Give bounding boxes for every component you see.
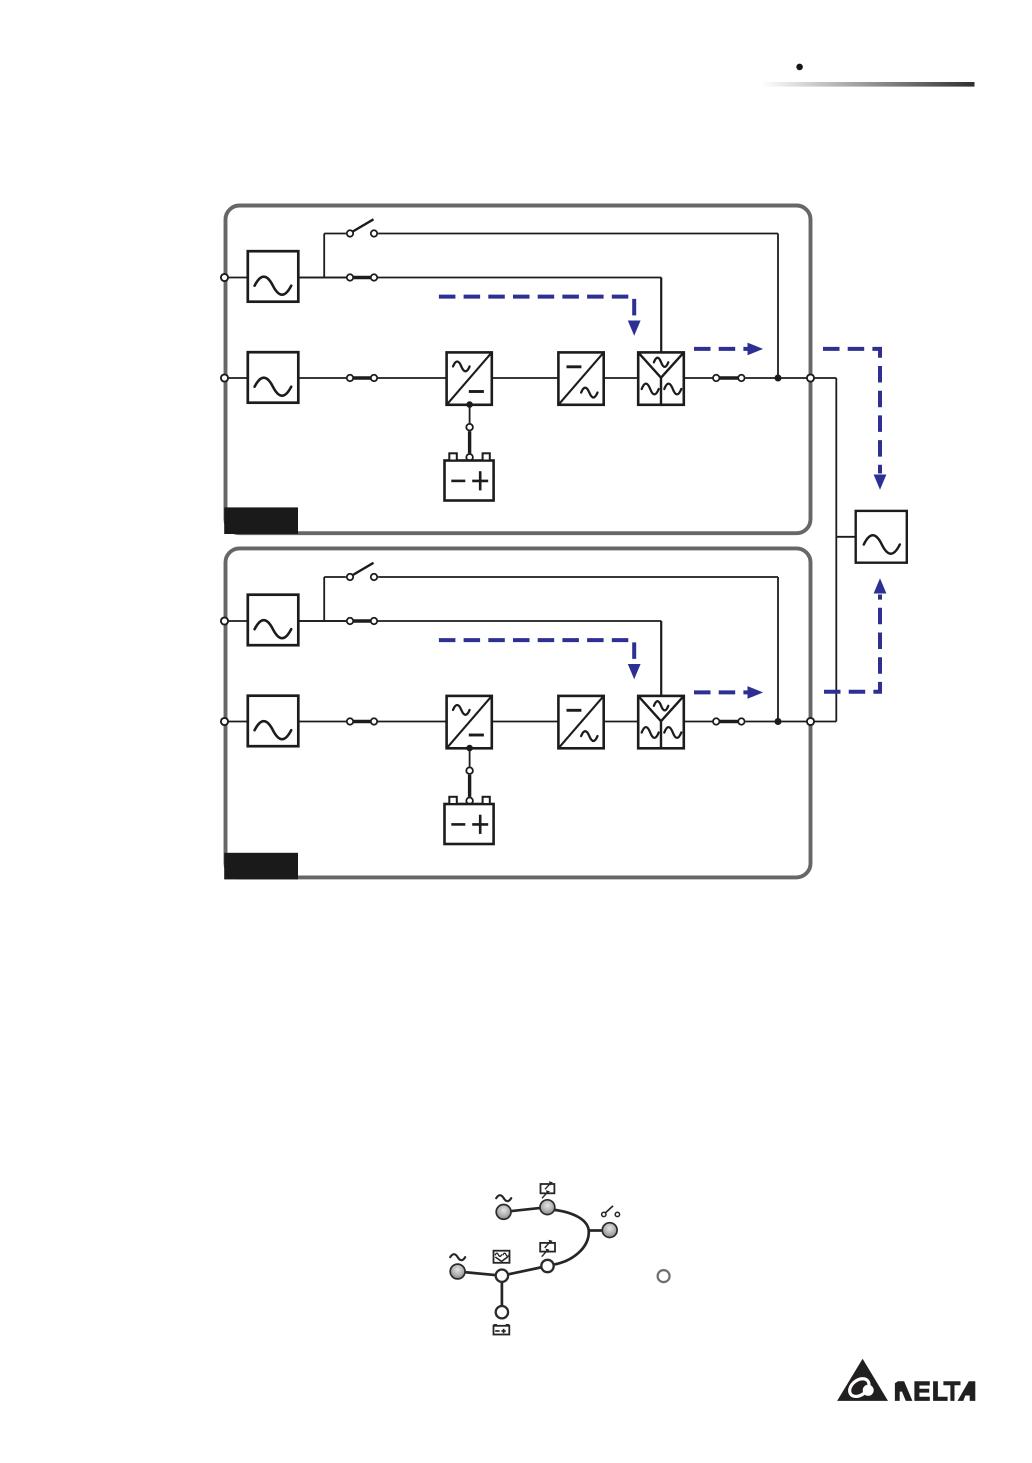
mimic link to output node <box>589 1229 602 1232</box>
UPS1 output terminal <box>807 374 814 381</box>
UPS2 wire bypass drop to static switch <box>660 621 662 696</box>
UPS1 battery <box>445 453 494 500</box>
UPS1 output flow dashed arrow <box>694 343 763 356</box>
mimic arc upper path <box>552 1210 589 1265</box>
UPS1 label block <box>224 507 298 534</box>
mimic bypass breaker ball <box>540 1200 555 1215</box>
UPS1 to load dashed arrow <box>823 349 886 490</box>
UPS1 bypass flow dashed arrow <box>439 297 641 336</box>
UPS1 battery cable <box>468 431 471 453</box>
UPS2 wire maintenance drop <box>777 577 779 722</box>
UPS1 bypass AC source <box>248 251 298 302</box>
UPS1 wire AC-terminal to source <box>229 377 248 379</box>
UPS2 wire AC-terminal to source <box>229 721 248 723</box>
UPS1 battery connector <box>466 424 473 431</box>
UPS2 wire bypass-terminal to source <box>229 620 248 622</box>
UPS2 main AC source <box>248 696 298 747</box>
UPS1 static transfer switch <box>638 352 684 404</box>
UPS2 bypass breaker (closed) <box>347 618 377 624</box>
mimic bypass source tilde <box>496 1195 511 1201</box>
UPS1 wire maintenance drop <box>777 234 779 379</box>
UPS1 wire bypass-terminal to source <box>229 277 248 279</box>
UPS1 wire bypass drop to static switch <box>660 278 662 353</box>
UPS2 wire riser to maintenance switch <box>324 576 346 578</box>
UPS2 wire rectifier to inverter <box>492 721 558 723</box>
mimic inverter node <box>496 1270 508 1282</box>
UPS2 wire inverter to static switch <box>605 721 639 723</box>
Delta logo wordmark <box>895 1381 975 1401</box>
UPS2 battery cable <box>468 775 471 797</box>
UPS2 wire static switch to output breaker <box>684 721 716 723</box>
UPS2 inverter <box>558 696 603 748</box>
UPS2 label block <box>224 853 298 880</box>
UPS2 wire branch riser <box>323 577 325 621</box>
UPS2 rectifier DC node <box>466 745 473 752</box>
UPS1 rectifier DC node <box>466 401 473 408</box>
mimic breaker icon 1 <box>541 1181 555 1198</box>
mimic battery node <box>496 1306 508 1318</box>
UPS2 wire output breaker to terminal <box>746 721 807 723</box>
UPS1 wire inverter to static switch <box>605 377 639 379</box>
UPS1 wire rectifier to inverter <box>492 377 558 379</box>
mimic output ball <box>602 1223 617 1238</box>
UPS1 bypass breaker (closed) <box>347 274 377 280</box>
UPS1 wire source to branch <box>298 277 346 279</box>
UPS2 input breaker (closed) <box>347 718 377 724</box>
UPS1 wire bypass to static-switch corner <box>298 277 661 279</box>
UPS1 maintenance bypass switch (open) <box>347 219 377 236</box>
Delta logo triangle <box>837 1359 888 1401</box>
mimic link to AC node <box>458 1272 502 1276</box>
mimic inverter-out node <box>541 1260 553 1272</box>
UPS2 AC input terminal <box>221 718 228 725</box>
mimic AC source tilde <box>450 1254 465 1260</box>
UPS1 output junction <box>775 375 782 382</box>
mimic bypass source ball <box>496 1205 511 1220</box>
mimic AC source ball <box>450 1264 465 1279</box>
UPS1 AC input terminal <box>221 374 228 381</box>
UPS2 battery <box>445 797 494 844</box>
UPS1 bypass input terminal <box>221 274 228 281</box>
page bullet <box>796 64 803 71</box>
UPS2 to load dashed arrow <box>824 578 886 692</box>
mimic battery icon <box>494 1324 510 1335</box>
UPS2 output flow dashed arrow <box>694 686 763 699</box>
wire UPS1 terminal to bus <box>815 377 837 379</box>
UPS1 enclosure <box>226 206 811 534</box>
mimic link lower path <box>502 1266 548 1276</box>
UPS1 output breaker (closed) <box>713 375 745 381</box>
UPS1 rectifier <box>447 352 492 404</box>
UPS2 bypass input terminal <box>221 617 228 624</box>
UPS1 main AC source <box>248 352 298 403</box>
UPS2 battery terminal <box>466 798 473 805</box>
UPS1 wire branch riser <box>323 234 325 278</box>
mimic breaker icon 2 <box>540 1240 555 1257</box>
UPS1 wire DC node to battery connector <box>469 405 471 424</box>
UPS2 maintenance bypass switch (open) <box>347 563 377 580</box>
UPS2 output terminal <box>807 718 814 725</box>
UPS2 wire maintenance switch to corner <box>378 576 778 578</box>
wire bus to load <box>836 536 855 538</box>
mimic output switch icon <box>602 1206 620 1217</box>
UPS1 inverter <box>558 352 603 404</box>
UPS1 wire riser to maintenance switch <box>324 233 346 235</box>
UPS1 wire maintenance switch to corner <box>378 233 778 235</box>
UPS2 output junction <box>775 718 782 725</box>
mimic link battery drop <box>501 1276 504 1313</box>
wire UPS2 terminal to bus <box>815 721 837 723</box>
UPS2 wire bypass to static-switch corner <box>298 620 661 622</box>
UPS2 wire DC node to battery connector <box>469 748 471 767</box>
UPS2 bypass flow dashed arrow <box>439 640 641 679</box>
UPS2 static transfer switch <box>638 696 684 748</box>
UPS1 wire source to input breaker <box>298 377 447 379</box>
UPS2 bypass AC source <box>248 595 298 646</box>
UPS1 input breaker (closed) <box>347 375 377 381</box>
header rule (gradient) <box>762 82 975 87</box>
output bus vertical <box>835 378 837 722</box>
load <box>856 511 907 563</box>
UPS2 battery connector <box>466 767 473 774</box>
UPS2 wire source to input breaker <box>298 721 447 723</box>
mimic standby node <box>658 1270 670 1282</box>
UPS2 wire source to branch <box>298 620 346 622</box>
UPS1 battery terminal <box>466 454 473 461</box>
UPS2 output breaker (closed) <box>713 718 745 724</box>
UPS2 enclosure <box>226 548 811 877</box>
UPS1 wire output breaker to terminal <box>746 377 807 379</box>
UPS1 wire static switch to output breaker <box>684 377 716 379</box>
mimic static switch icon <box>494 1251 510 1263</box>
mimic link input-rectifier <box>504 1207 548 1212</box>
UPS2 rectifier <box>447 696 492 748</box>
